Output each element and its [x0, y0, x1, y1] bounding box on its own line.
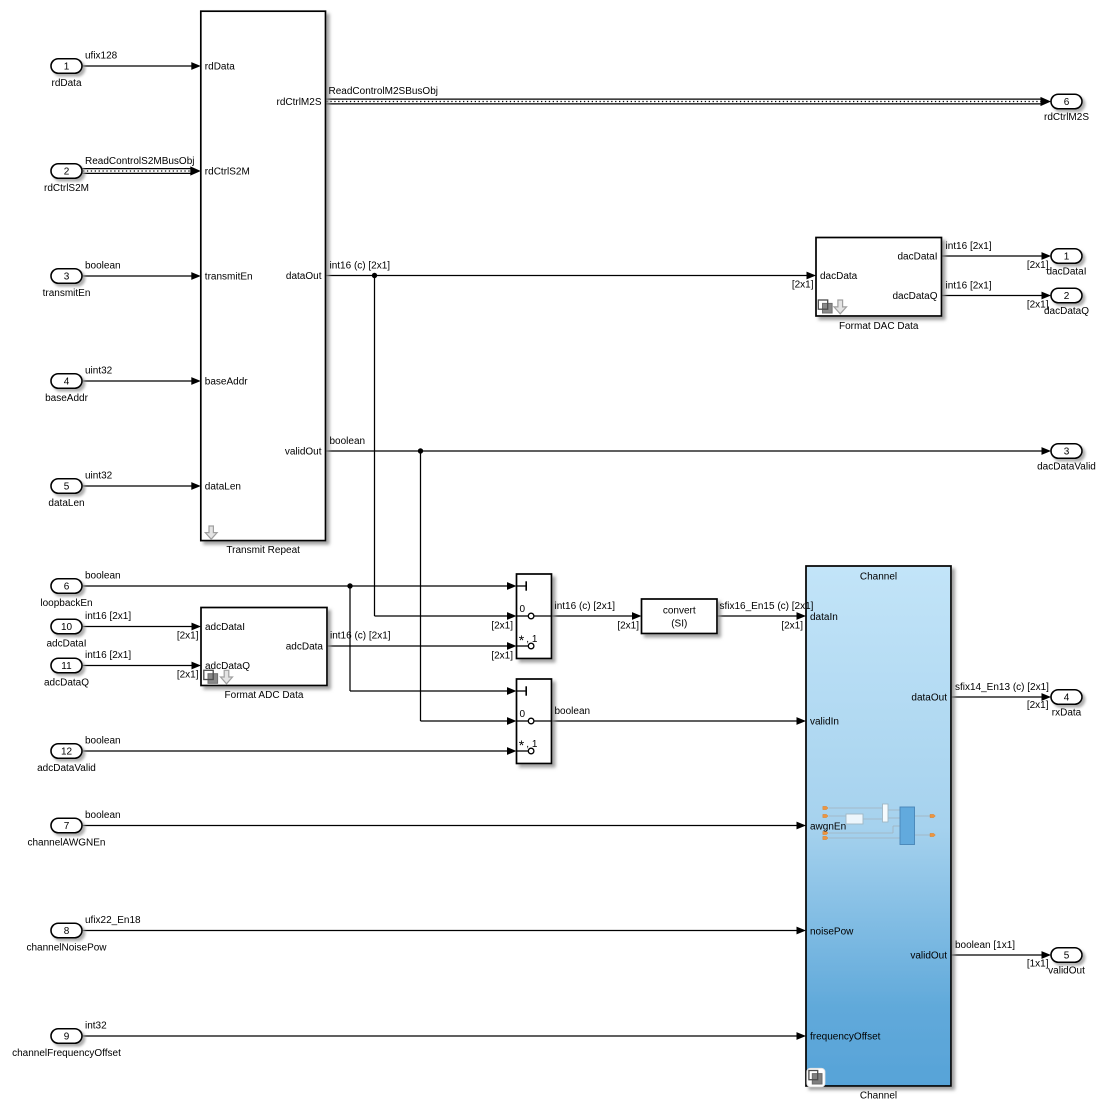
svg-text:sfix16_En15 (c) [2x1]: sfix16_En15 (c) [2x1]	[720, 601, 814, 612]
svg-text:1: 1	[64, 62, 70, 73]
svg-text:loopbackEn: loopbackEn	[40, 598, 92, 609]
svg-text:, 1: , 1	[526, 739, 538, 750]
svg-text:boolean [1x1]: boolean [1x1]	[955, 940, 1015, 951]
svg-text:[2x1]: [2x1]	[1027, 260, 1049, 271]
svg-text:awgnEn: awgnEn	[810, 822, 846, 833]
svg-text:dacDataI: dacDataI	[897, 252, 937, 263]
svg-text:uint32: uint32	[85, 366, 113, 377]
svg-text:rdData: rdData	[51, 78, 81, 89]
svg-text:[2x1]: [2x1]	[792, 280, 814, 291]
svg-text:0: 0	[520, 604, 526, 615]
svg-text:rdCtrlS2M: rdCtrlS2M	[205, 167, 250, 178]
svg-text:ReadControlM2SBusObj: ReadControlM2SBusObj	[329, 86, 439, 97]
svg-text:[2x1]: [2x1]	[177, 670, 199, 681]
svg-text:int32: int32	[85, 1021, 107, 1032]
svg-text:4: 4	[1064, 693, 1070, 704]
svg-text:4: 4	[64, 377, 70, 388]
svg-text:dataLen: dataLen	[205, 482, 241, 493]
svg-text:12: 12	[61, 747, 73, 758]
svg-text:sfix14_En13 (c) [2x1]: sfix14_En13 (c) [2x1]	[955, 682, 1049, 693]
svg-text:transmitEn: transmitEn	[205, 272, 253, 283]
svg-text:adcData: adcData	[286, 642, 324, 653]
svg-text:baseAddr: baseAddr	[205, 377, 248, 388]
svg-text:dacDataValid: dacDataValid	[1037, 462, 1096, 473]
svg-text:dacDataI: dacDataI	[1046, 267, 1086, 278]
svg-text:validOut: validOut	[1048, 966, 1085, 977]
svg-text:Format DAC Data: Format DAC Data	[839, 321, 919, 332]
svg-text:, 1: , 1	[526, 634, 538, 645]
svg-text:adcDataValid: adcDataValid	[37, 763, 96, 774]
svg-text:[2x1]: [2x1]	[1027, 300, 1049, 311]
svg-text:channelNoisePow: channelNoisePow	[26, 942, 107, 953]
svg-text:ReadControlS2MBusObj: ReadControlS2MBusObj	[85, 156, 195, 167]
svg-text:3: 3	[64, 272, 70, 283]
svg-text:frequencyOffset: frequencyOffset	[810, 1032, 881, 1043]
svg-text:[2x1]: [2x1]	[1027, 700, 1049, 711]
svg-text:boolean: boolean	[85, 810, 121, 821]
svg-text:ufix22_En18: ufix22_En18	[85, 915, 141, 926]
svg-text:dataOut: dataOut	[286, 271, 322, 282]
svg-text:int16 [2x1]: int16 [2x1]	[85, 650, 131, 661]
svg-text:boolean: boolean	[85, 736, 121, 747]
svg-text:0: 0	[520, 709, 526, 720]
svg-text:ufix128: ufix128	[85, 51, 118, 62]
svg-text:Format ADC Data: Format ADC Data	[225, 690, 304, 701]
svg-text:[1x1]: [1x1]	[1027, 959, 1049, 970]
svg-text:int16 (c) [2x1]: int16 (c) [2x1]	[330, 261, 391, 272]
svg-text:adcDataI: adcDataI	[46, 638, 86, 649]
svg-text:adcDataQ: adcDataQ	[44, 677, 89, 688]
svg-text:validOut: validOut	[910, 951, 947, 962]
svg-text:uint32: uint32	[85, 471, 113, 482]
svg-text:rxData: rxData	[1052, 708, 1082, 719]
svg-text:int16 (c) [2x1]: int16 (c) [2x1]	[330, 631, 391, 642]
svg-text:*: *	[519, 737, 525, 753]
svg-text:9: 9	[64, 1032, 70, 1043]
svg-text:Channel: Channel	[860, 1091, 897, 1102]
svg-text:boolean: boolean	[85, 261, 121, 272]
svg-text:rdData: rdData	[205, 62, 235, 73]
svg-text:baseAddr: baseAddr	[45, 393, 88, 404]
svg-text:int16 [2x1]: int16 [2x1]	[946, 241, 992, 252]
svg-text:1: 1	[1064, 252, 1070, 263]
svg-text:channelFrequencyOffset: channelFrequencyOffset	[12, 1048, 121, 1059]
svg-text:6: 6	[64, 582, 70, 593]
svg-text:boolean: boolean	[555, 706, 591, 717]
svg-text:[2x1]: [2x1]	[491, 621, 513, 632]
svg-text:[2x1]: [2x1]	[617, 621, 639, 632]
svg-text:rdCtrlM2S: rdCtrlM2S	[276, 97, 321, 108]
svg-text:(SI): (SI)	[671, 619, 687, 630]
svg-text:dataIn: dataIn	[810, 612, 838, 623]
svg-text:3: 3	[1064, 447, 1070, 458]
svg-text:dacDataQ: dacDataQ	[1044, 306, 1089, 317]
svg-text:validOut: validOut	[285, 447, 322, 458]
svg-text:5: 5	[64, 482, 70, 493]
svg-text:[2x1]: [2x1]	[781, 621, 803, 632]
svg-text:convert: convert	[663, 606, 696, 617]
svg-text:[2x1]: [2x1]	[177, 631, 199, 642]
svg-text:dataLen: dataLen	[48, 498, 84, 509]
svg-text:dacData: dacData	[820, 271, 858, 282]
svg-text:transmitEn: transmitEn	[43, 288, 91, 299]
svg-text:int16 (c) [2x1]: int16 (c) [2x1]	[555, 601, 616, 612]
svg-text:11: 11	[61, 661, 72, 672]
svg-text:*: *	[519, 632, 525, 648]
svg-text:7: 7	[64, 821, 70, 832]
svg-text:[2x1]: [2x1]	[491, 651, 513, 662]
svg-text:10: 10	[61, 622, 73, 633]
svg-text:rdCtrlM2S: rdCtrlM2S	[1044, 112, 1089, 123]
svg-text:boolean: boolean	[85, 571, 121, 582]
svg-text:validIn: validIn	[810, 717, 839, 728]
svg-text:6: 6	[1064, 97, 1070, 108]
svg-text:Transmit Repeat: Transmit Repeat	[226, 545, 300, 556]
svg-text:rdCtrlS2M: rdCtrlS2M	[44, 183, 89, 194]
svg-text:dacDataQ: dacDataQ	[892, 291, 937, 302]
svg-text:2: 2	[64, 167, 70, 178]
svg-text:int16 [2x1]: int16 [2x1]	[946, 281, 992, 292]
svg-text:2: 2	[1064, 291, 1070, 302]
svg-text:noisePow: noisePow	[810, 927, 854, 938]
svg-text:dataOut: dataOut	[911, 693, 947, 704]
svg-text:8: 8	[64, 926, 70, 937]
svg-text:Channel: Channel	[860, 571, 897, 582]
svg-text:5: 5	[1064, 951, 1070, 962]
svg-text:int16 [2x1]: int16 [2x1]	[85, 611, 131, 622]
svg-text:adcDataI: adcDataI	[205, 622, 245, 633]
svg-text:channelAWGNEn: channelAWGNEn	[28, 837, 106, 848]
svg-text:boolean: boolean	[330, 436, 366, 447]
